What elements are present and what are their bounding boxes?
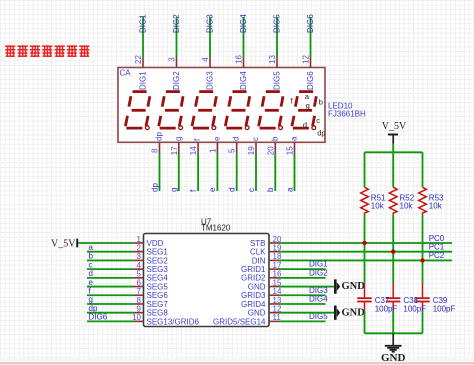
svg-text:dp: dp [150, 183, 159, 192]
svg-text:GRID4: GRID4 [241, 300, 266, 309]
svg-text:GRID1: GRID1 [241, 265, 266, 274]
svg-text:8: 8 [151, 148, 160, 153]
svg-text:g: g [170, 188, 179, 192]
svg-text:SEG7: SEG7 [147, 300, 169, 309]
svg-text:14: 14 [189, 146, 198, 155]
svg-text:10k: 10k [400, 202, 414, 211]
svg-text:VDD: VDD [147, 239, 164, 248]
svg-text:dp: dp [317, 128, 325, 137]
svg-text:b: b [266, 187, 275, 192]
svg-text:c: c [89, 260, 93, 269]
svg-text:d: d [303, 121, 307, 130]
svg-text:GND: GND [342, 281, 366, 292]
svg-text:3: 3 [168, 57, 177, 62]
svg-text:PC1: PC1 [429, 243, 445, 252]
svg-text:DIG1: DIG1 [309, 260, 328, 269]
svg-text:3: 3 [137, 252, 142, 261]
svg-text:5: 5 [228, 148, 237, 153]
svg-text:6: 6 [137, 278, 142, 287]
svg-text:100pF: 100pF [375, 305, 398, 314]
svg-text:DIG5: DIG5 [272, 14, 281, 33]
svg-text:DIG2: DIG2 [309, 268, 328, 277]
svg-text:10k: 10k [371, 202, 385, 211]
svg-text:DIG6: DIG6 [306, 71, 315, 90]
svg-text:a: a [89, 243, 94, 252]
svg-text:DIN: DIN [252, 256, 266, 265]
svg-text:20: 20 [266, 146, 275, 155]
svg-text:V_5V: V_5V [382, 121, 407, 132]
svg-text:C39: C39 [433, 296, 448, 305]
svg-text:c: c [251, 137, 260, 141]
svg-text:V_5V: V_5V [51, 239, 76, 250]
svg-text:d: d [89, 269, 93, 278]
svg-text:DIG4: DIG4 [309, 294, 328, 303]
svg-text:PC0: PC0 [429, 234, 445, 243]
svg-text:16: 16 [235, 55, 244, 64]
svg-text:PC2: PC2 [429, 251, 445, 260]
svg-text:DIG4: DIG4 [239, 14, 248, 33]
svg-text:g: g [174, 137, 183, 141]
svg-text:2: 2 [137, 244, 142, 253]
svg-text:CLK: CLK [250, 248, 266, 257]
svg-text:19: 19 [247, 146, 256, 155]
svg-text:SEG8: SEG8 [147, 309, 169, 318]
svg-text:f: f [89, 286, 92, 295]
svg-text:f: f [189, 189, 198, 192]
svg-text:STB: STB [250, 239, 266, 248]
svg-text:10: 10 [132, 313, 141, 322]
svg-text:1: 1 [208, 148, 217, 153]
svg-text:SEG4: SEG4 [147, 274, 169, 283]
svg-text:17: 17 [170, 146, 179, 155]
svg-text:DIG1: DIG1 [138, 14, 147, 33]
svg-text:12: 12 [302, 55, 311, 64]
svg-text:5: 5 [137, 270, 142, 279]
svg-text:DIG3: DIG3 [205, 71, 214, 90]
svg-text:SEG3: SEG3 [147, 265, 169, 274]
svg-text:CA: CA [120, 69, 132, 78]
svg-text:GND: GND [248, 282, 266, 291]
svg-text:SEG1: SEG1 [147, 248, 169, 257]
svg-text:e: e [212, 136, 221, 141]
svg-text:TM1620: TM1620 [201, 224, 231, 233]
svg-text:FJ3661BH: FJ3661BH [328, 109, 366, 118]
svg-text:DIG6: DIG6 [306, 14, 315, 33]
svg-text:GRID5/SEG14: GRID5/SEG14 [213, 317, 266, 326]
svg-text:100pF: 100pF [403, 305, 426, 314]
svg-text:g: g [306, 101, 310, 110]
svg-text:b: b [270, 136, 279, 141]
svg-text:GND: GND [342, 307, 366, 318]
svg-text:d: d [228, 188, 237, 192]
svg-text:SEG5: SEG5 [147, 282, 169, 291]
svg-text:GND: GND [248, 309, 266, 318]
svg-text:100pF: 100pF [433, 305, 456, 314]
svg-text:dp: dp [89, 304, 98, 313]
svg-text:8: 8 [137, 296, 142, 305]
svg-text:DIG2: DIG2 [172, 14, 181, 33]
svg-text:DIG3: DIG3 [205, 14, 214, 33]
svg-text:SEG6: SEG6 [147, 291, 169, 300]
svg-text:10k: 10k [429, 202, 443, 211]
svg-text:C37: C37 [375, 296, 390, 305]
svg-text:C38: C38 [403, 296, 418, 305]
svg-text:DIG1: DIG1 [138, 71, 147, 90]
svg-text:7: 7 [137, 287, 142, 296]
svg-text:e: e [89, 278, 94, 287]
svg-text:GRID3: GRID3 [241, 291, 266, 300]
svg-text:g: g [89, 295, 93, 304]
svg-text:SEG13/GRID6: SEG13/GRID6 [147, 317, 200, 326]
svg-text:a: a [290, 136, 299, 141]
svg-text:9: 9 [137, 304, 142, 313]
svg-text:SEG2: SEG2 [147, 256, 169, 265]
svg-text:1: 1 [137, 235, 142, 244]
svg-text:a: a [285, 187, 294, 192]
svg-text:GND: GND [381, 352, 406, 364]
svg-text:DIG4: DIG4 [239, 71, 248, 90]
svg-text:b: b [319, 97, 323, 106]
svg-text:d: d [232, 137, 241, 141]
svg-text:13: 13 [268, 55, 277, 64]
svg-text:DIG6: DIG6 [89, 313, 108, 322]
svg-text:e: e [208, 187, 217, 192]
svg-text:c: c [316, 116, 320, 125]
svg-text:DIG2: DIG2 [172, 71, 181, 90]
svg-text:dp: dp [155, 132, 164, 141]
svg-text:22: 22 [134, 55, 143, 64]
svg-text:c: c [247, 188, 256, 192]
svg-text:GRID2: GRID2 [241, 274, 266, 283]
svg-text:b: b [89, 252, 94, 261]
svg-text:4: 4 [201, 57, 210, 62]
svg-text:DIG5: DIG5 [272, 71, 281, 90]
svg-text:15: 15 [286, 146, 295, 155]
svg-text:4: 4 [137, 261, 142, 270]
